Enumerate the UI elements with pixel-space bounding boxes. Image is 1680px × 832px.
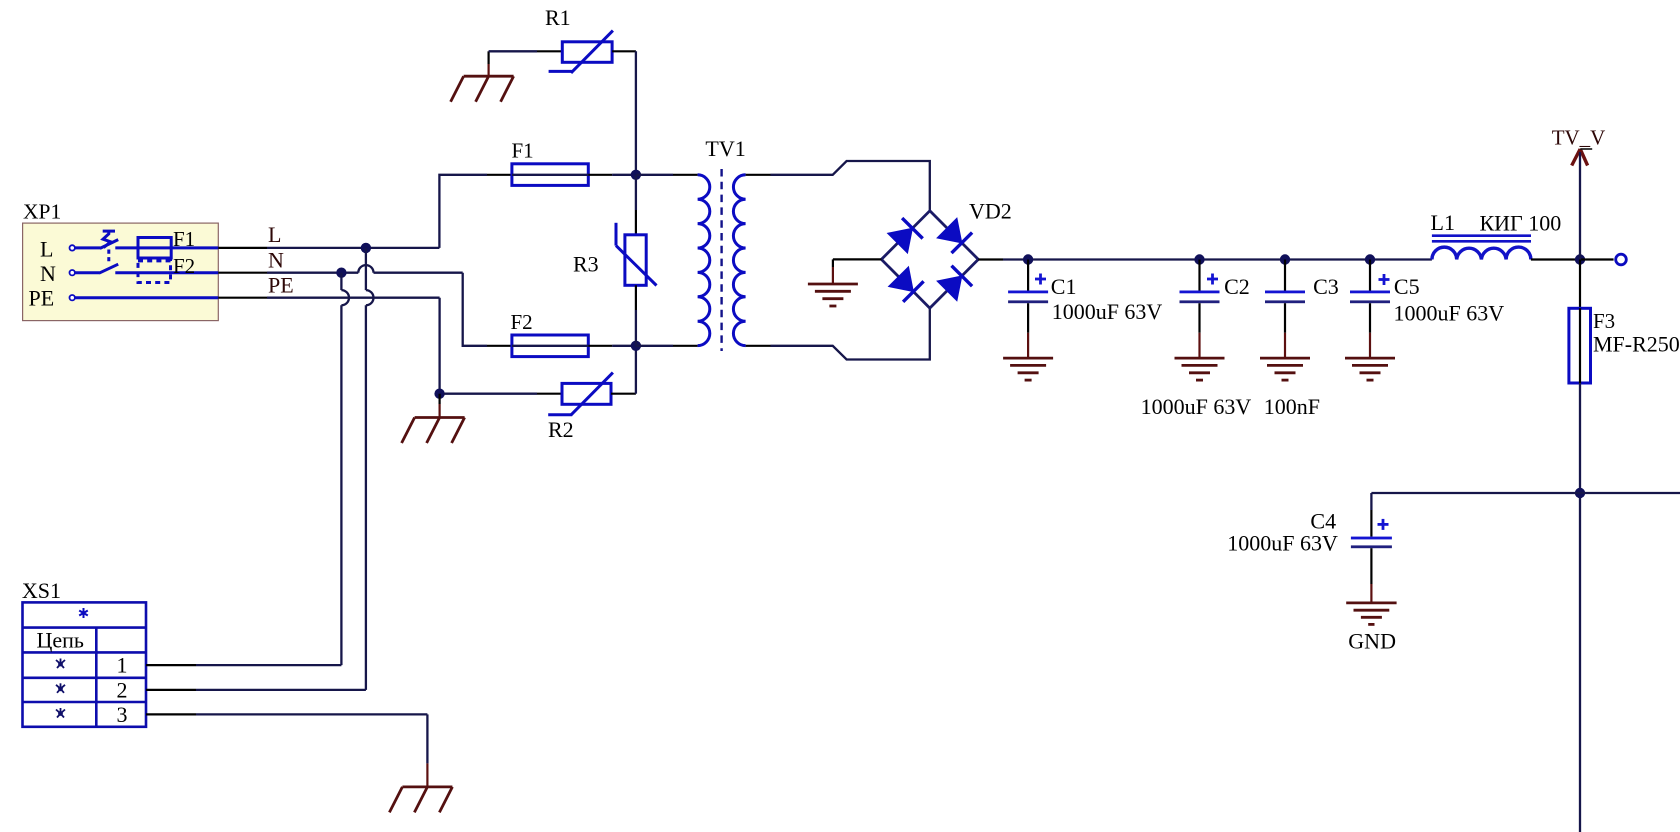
wire R1 to F1 node [612, 51, 636, 175]
chassis ground stub at PE node [439, 394, 441, 418]
switch S1 pole N [75, 264, 218, 273]
inductor L1 coil [1432, 247, 1531, 259]
svg-text:PE: PE [268, 273, 294, 298]
inductor L1 core bars [1432, 236, 1531, 242]
capacitor C1 [1008, 260, 1048, 359]
svg-text:TV_V: TV_V [1552, 125, 1606, 149]
ground stub to R1 [488, 51, 490, 76]
C5 plus sign [1379, 274, 1390, 285]
svg-text:3: 3 [117, 702, 128, 727]
XS1 pin glyph row2 [56, 683, 65, 693]
wire output node down to F3 [1579, 260, 1581, 309]
VD2 diode 3 (left to bottom) [889, 267, 924, 302]
svg-text:TV1: TV1 [705, 136, 745, 161]
connector XS1 table [23, 602, 147, 726]
junction dot GND rail [1575, 488, 1585, 498]
wire XS1 pin3 [146, 714, 427, 787]
junction dot C5 [1365, 254, 1375, 264]
svg-text:VD2: VD2 [969, 199, 1012, 224]
XP1 pin circle N [70, 270, 75, 275]
capacitor C2 [1180, 260, 1220, 359]
svg-text:1: 1 [117, 653, 128, 678]
junction dot C2 [1194, 254, 1204, 264]
pin stub L out of XP1 [218, 247, 267, 249]
varistor R2 [548, 373, 613, 415]
wire ground to R1 [489, 50, 563, 52]
junction dot PE-R2 node [434, 389, 444, 399]
wire F3 down to GND rail [1579, 383, 1581, 832]
svg-text:КИГ 100: КИГ 100 [1480, 211, 1562, 236]
svg-text:F1: F1 [512, 139, 534, 163]
wire bridge left vertex to ground [833, 259, 882, 284]
switch S1 gang dashed link [107, 250, 110, 265]
svg-text:100nF: 100nF [1264, 394, 1320, 419]
wire TV1 secondary top to bridge [746, 161, 930, 211]
svg-text:C3: C3 [1313, 274, 1339, 299]
junction dot L node [361, 243, 371, 253]
XS1 pin glyph row1 [56, 659, 65, 669]
capacitor C4 [1351, 493, 1392, 603]
wire net PE down to R2 node [438, 298, 440, 394]
junction dot output node [1575, 254, 1585, 264]
wire R3 down to F2 node [635, 285, 637, 346]
varistor R3 [616, 223, 657, 286]
svg-text:N: N [40, 261, 56, 286]
connector XP1 body [23, 223, 219, 321]
fuse F1 [487, 164, 636, 186]
C4 plus sign [1378, 519, 1389, 530]
wire F1 node down to varistor R3 [635, 175, 637, 235]
fuse F3 [1569, 308, 1591, 383]
svg-text:L1: L1 [1431, 210, 1455, 235]
wire net PE horizontal [267, 297, 440, 299]
svg-text:Цепь: Цепь [37, 627, 84, 652]
C2 plus sign [1207, 274, 1218, 285]
pin stub right of R2 and wire up to F2 node [611, 346, 636, 394]
svg-text:2: 2 [117, 677, 128, 702]
svg-text:C1: C1 [1051, 274, 1077, 299]
junction dot F2 node [631, 341, 641, 351]
wire vertical L node down to XS1 pin2 with hop over PE [366, 248, 374, 690]
wire PE node to varistor R2 [444, 393, 537, 395]
svg-text:PE: PE [29, 286, 55, 311]
junction dot C3 [1280, 254, 1290, 264]
chassis ground symbol at XS1 pin3 [389, 787, 452, 813]
wire XS1 pin2 [146, 689, 366, 691]
capacitor C3 [1265, 260, 1305, 359]
pin stub left of R2 [537, 393, 562, 395]
svg-text:L: L [40, 237, 53, 262]
pin stub N out of XP1 [218, 272, 267, 274]
wire vertical N node down to XS1 pin1 with hop over PE [341, 273, 349, 665]
earth ground symbol GND [1346, 603, 1396, 625]
svg-text:F2: F2 [511, 310, 533, 334]
earth ground symbol at bridge [808, 284, 858, 306]
fuse F2 dashed inside XP1 [138, 261, 171, 283]
wire XS1 pin1 [146, 664, 341, 666]
transformer TV1 secondary winding [733, 175, 745, 346]
svg-text:R2: R2 [548, 417, 574, 442]
XP1 pin circle L [70, 245, 75, 250]
svg-text:C2: C2 [1224, 274, 1250, 299]
earth ground symbol at C2 [1175, 358, 1225, 380]
wire to output terminal [1580, 258, 1614, 260]
svg-text:N: N [268, 248, 284, 273]
XS1 pin glyph row3 [56, 708, 65, 718]
pin stub PE out of XP1 [218, 297, 267, 299]
wire TV1 secondary bottom to bridge [746, 308, 930, 359]
junction dot N node [336, 268, 346, 278]
capacitor C5 [1350, 260, 1390, 359]
svg-text:1000uF 63V: 1000uF 63V [1394, 301, 1505, 326]
svg-text:F2: F2 [173, 254, 195, 278]
svg-text:R1: R1 [545, 5, 571, 30]
transformer TV1 primary winding [698, 175, 710, 346]
earth ground symbol at C1 [1003, 358, 1053, 380]
wire net L horizontal [267, 247, 439, 249]
switch S1 actuator squiggle [103, 230, 115, 248]
junction dot F1 node [631, 170, 641, 180]
svg-text:1000uF 63V: 1000uF 63V [1141, 394, 1252, 419]
svg-text:1000uF 63V: 1000uF 63V [1227, 531, 1338, 556]
chassis ground symbol near R1 [451, 76, 514, 102]
fuse F1 inside XP1 [138, 238, 218, 259]
wire L1 to output node [1531, 258, 1580, 260]
XP1 PE inner wire [75, 296, 218, 299]
bridge rectifier VD2 diamond outline [881, 211, 978, 308]
fuse F2 [487, 335, 636, 357]
XS1 header asterisk [79, 608, 88, 618]
wire GND rail horizontal [1371, 492, 1680, 494]
port TV_V arrow [1572, 149, 1593, 166]
wire net L up to fuse F1 row [439, 175, 487, 248]
svg-text:GND: GND [1348, 629, 1396, 654]
svg-text:L: L [268, 222, 281, 247]
earth ground symbol at C5 [1345, 358, 1395, 380]
wire F1 node to TV1 primary top [636, 174, 698, 176]
svg-text:XP1: XP1 [23, 200, 61, 224]
svg-text:F3: F3 [1593, 309, 1615, 333]
switch S1 pole L [75, 240, 138, 249]
svg-text:R3: R3 [573, 252, 599, 277]
earth ground symbol at C3 [1260, 358, 1310, 380]
svg-text:MF-R250: MF-R250 [1593, 332, 1680, 357]
wire bridge right vertex to output bus [978, 258, 1432, 260]
junction dot C1 [1023, 254, 1033, 264]
VD2 diode 2 (top to right) [937, 218, 972, 253]
VD2 diode 4 (bottom to right) [937, 266, 972, 301]
wire net N down to fuse F2 row [463, 273, 487, 346]
wire F2 node to TV1 primary bottom [636, 345, 698, 347]
svg-text:C5: C5 [1394, 274, 1420, 299]
output terminal circle [1616, 254, 1627, 265]
chassis ground symbol at PE node [402, 418, 465, 444]
svg-text:1000uF 63V: 1000uF 63V [1052, 299, 1163, 324]
VD2 diode 1 (left to top) [888, 218, 923, 253]
wire TV_V down to output node [1579, 152, 1581, 260]
svg-text:XS1: XS1 [22, 578, 61, 603]
svg-text:F1: F1 [173, 227, 195, 251]
varistor R1 [549, 31, 613, 73]
wire net N horizontal with hop over vertical [267, 265, 463, 273]
transformer TV1 core dashed line [720, 169, 722, 351]
XP1 pin circle PE [70, 295, 75, 300]
C1 plus sign [1035, 274, 1046, 285]
